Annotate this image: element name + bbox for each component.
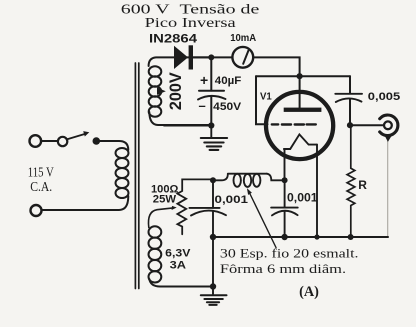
- svg-text:200V: 200V: [167, 72, 185, 110]
- svg-text:Pico Inversa: Pico Inversa: [145, 16, 237, 31]
- svg-text:0,001: 0,001: [287, 192, 318, 204]
- svg-text:40µF: 40µF: [215, 75, 242, 87]
- svg-text:0,005: 0,005: [368, 91, 400, 103]
- svg-text:IN2864: IN2864: [149, 32, 197, 46]
- svg-text:–: –: [199, 98, 206, 113]
- svg-text:6,3V: 6,3V: [165, 248, 191, 260]
- svg-text:(A): (A): [299, 284, 319, 300]
- svg-text:0,001: 0,001: [215, 194, 249, 206]
- svg-text:+: +: [200, 72, 208, 88]
- svg-text:10mA: 10mA: [230, 33, 256, 44]
- svg-text:C.A.: C.A.: [30, 179, 52, 194]
- svg-text:25W: 25W: [153, 193, 177, 205]
- svg-text:3A: 3A: [170, 259, 186, 271]
- svg-text:R: R: [358, 178, 367, 192]
- svg-text:30 Esp. fio 20 esmalt.: 30 Esp. fio 20 esmalt.: [220, 246, 359, 261]
- svg-text:V1: V1: [260, 90, 272, 102]
- svg-text:Fôrma 6 mm diâm.: Fôrma 6 mm diâm.: [220, 261, 346, 276]
- svg-text:450V: 450V: [213, 101, 242, 113]
